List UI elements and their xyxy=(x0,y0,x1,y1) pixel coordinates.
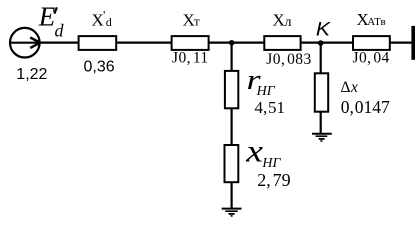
svg-text:1,22: 1,22 xyxy=(16,66,47,83)
svg-text:d: d xyxy=(106,15,112,29)
svg-text:E: E xyxy=(38,2,56,32)
svg-text:X: X xyxy=(183,11,195,30)
svg-text:J0,11: J0,11 xyxy=(172,50,209,67)
svg-text:АТ: АТ xyxy=(367,16,381,28)
svg-text:X: X xyxy=(92,10,104,29)
svg-text:Х: Х xyxy=(273,11,285,30)
svg-text:2,79: 2,79 xyxy=(257,170,290,190)
svg-text:НГ: НГ xyxy=(256,84,276,99)
svg-text:K: K xyxy=(316,19,332,40)
svg-text:Δx: Δx xyxy=(341,79,358,96)
svg-text:л: л xyxy=(285,15,292,30)
svg-text:x: x xyxy=(245,133,263,169)
svg-text:т: т xyxy=(194,14,200,29)
svg-text:4,51: 4,51 xyxy=(255,98,286,117)
svg-text:0,0147: 0,0147 xyxy=(341,97,390,117)
svg-text:в: в xyxy=(381,16,386,28)
svg-text:0,36: 0,36 xyxy=(84,59,115,76)
svg-text:J0,04: J0,04 xyxy=(353,50,390,67)
svg-text:d: d xyxy=(55,20,65,40)
svg-text:J0,083: J0,083 xyxy=(266,51,311,68)
